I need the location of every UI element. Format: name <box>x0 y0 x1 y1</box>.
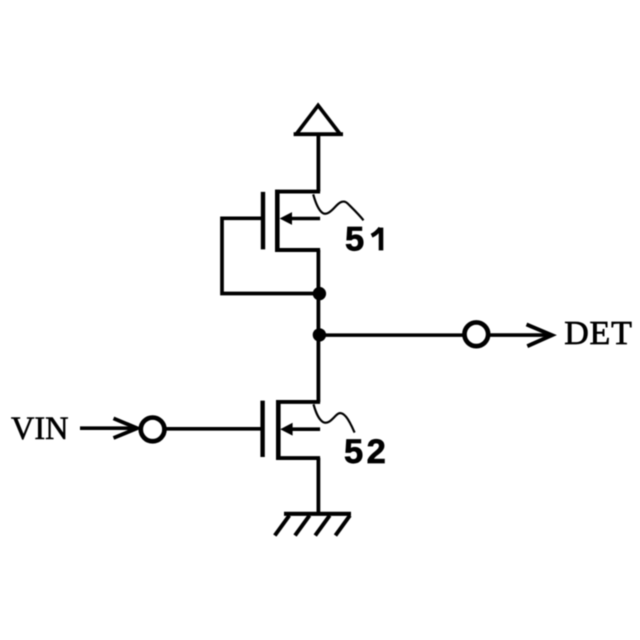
output arrow to DET <box>489 324 552 346</box>
leader line to label 52 <box>314 404 355 432</box>
node A junction dot <box>313 287 326 300</box>
wire input terminal to Q52 gate <box>165 427 261 431</box>
svg-text:5: 5 <box>345 220 364 258</box>
wire node B to output terminal <box>319 333 463 337</box>
transistor Q51 <box>263 190 320 251</box>
svg-text:52: 52 <box>344 433 389 471</box>
input terminal circle <box>141 418 165 442</box>
wire Q51 gate feedback loop <box>222 218 314 293</box>
leader line to label 51 <box>313 194 363 220</box>
node B junction dot <box>313 328 326 341</box>
svg-text:VIN: VIN <box>11 411 69 447</box>
transistor Q52 <box>263 400 321 459</box>
svg-text:DET: DET <box>564 315 633 352</box>
wire power to Q51 drain <box>316 134 320 192</box>
ground <box>275 514 351 536</box>
label 51 <box>345 220 381 258</box>
power supply symbol <box>294 105 343 134</box>
input arrow from VIN <box>80 418 137 438</box>
wire Q51 source down through nodes to Q52 drain <box>316 250 320 402</box>
wire Q52 source to ground <box>316 458 320 514</box>
output terminal circle <box>464 322 488 346</box>
